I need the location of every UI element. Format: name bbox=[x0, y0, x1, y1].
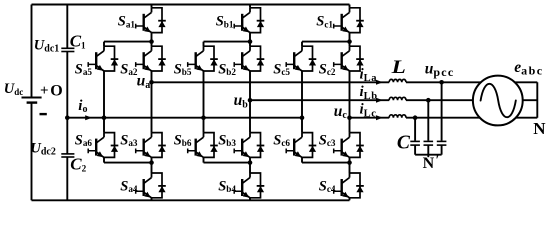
svg-text:Sa3: Sa3 bbox=[120, 132, 138, 148]
wire: filter-cap tap phase b bbox=[427, 100, 429, 141]
IGBT S_c2 bbox=[334, 46, 364, 71]
svg-text:iLb: iLb bbox=[360, 84, 378, 102]
IGBT S_b6 bbox=[188, 133, 218, 158]
filter capacitor C (phase a) bbox=[437, 141, 447, 145]
junction: node Sa1/Sa2 bbox=[149, 39, 154, 44]
IGBT S_a4 bbox=[136, 173, 166, 198]
svg-text:O: O bbox=[50, 82, 62, 99]
svg-text:C1: C1 bbox=[70, 31, 86, 50]
wire: node link Sc1-Sc2 to clamp bbox=[302, 41, 350, 43]
svg-text:+: + bbox=[40, 83, 49, 99]
IGBT S_c4 bbox=[334, 173, 364, 198]
wire: node link Sc3-Sc4 to clamp bbox=[302, 162, 350, 164]
arrow: i_Lc current direction bbox=[376, 115, 383, 120]
svg-text:Sb1: Sb1 bbox=[216, 14, 234, 30]
capacitor C1 bbox=[61, 48, 74, 51]
svg-text:Sc1: Sc1 bbox=[316, 14, 333, 30]
svg-text:Sc3: Sc3 bbox=[319, 132, 336, 148]
svg-text:C: C bbox=[397, 133, 411, 154]
svg-text:upcc: upcc bbox=[425, 61, 455, 80]
AC grid source e_abc (circle) bbox=[473, 76, 523, 126]
junction: output node u_c bbox=[347, 115, 352, 120]
IGBT S_b5 bbox=[188, 46, 218, 71]
svg-text:Sb4: Sb4 bbox=[218, 178, 236, 194]
filter capacitor C (phase c) bbox=[410, 141, 420, 145]
junction: tap on phase-c line bbox=[413, 115, 418, 120]
wire: filter-cap tap phase a bbox=[441, 82, 443, 140]
svg-text:Sc6: Sc6 bbox=[273, 132, 290, 148]
junction: output node u_a bbox=[149, 80, 154, 85]
junction: clamp leg on neutral bus (phase a) bbox=[102, 115, 107, 120]
junction: O node on DC-link rail bbox=[65, 115, 70, 120]
svg-text:Udc1: Udc1 bbox=[34, 38, 59, 55]
IGBT S_c5 bbox=[286, 46, 316, 71]
svg-text:iLc: iLc bbox=[360, 102, 377, 120]
svg-text:Udc: Udc bbox=[4, 81, 23, 97]
wire: node link Sa3-Sa4 to clamp bbox=[104, 162, 152, 164]
svg-text:eabc: eabc bbox=[514, 59, 543, 78]
svg-text:Sb3: Sb3 bbox=[218, 132, 236, 148]
svg-text:io: io bbox=[78, 98, 87, 115]
svg-text:Udc2: Udc2 bbox=[30, 141, 55, 158]
junction: node Sc3/Sc4 bbox=[347, 160, 352, 165]
wire: phase-a output line to grid bbox=[152, 81, 481, 83]
arrow: i_Lb current direction bbox=[376, 98, 383, 103]
wire: phase-b main column bbox=[249, 5, 251, 201]
svg-text:N: N bbox=[533, 119, 546, 138]
DC source U_dc battery bbox=[22, 5, 42, 201]
wire: neutral midpoint bus O bbox=[67, 117, 302, 119]
svg-text:uc: uc bbox=[334, 103, 348, 121]
wire: filter-cap tap phase c bbox=[414, 118, 416, 141]
arrow: i_o current direction bbox=[85, 115, 92, 120]
svg-text:Sa6: Sa6 bbox=[75, 132, 93, 148]
IGBT S_c1 bbox=[334, 8, 364, 33]
wire: node link Sb3-Sb4 to clamp bbox=[204, 162, 251, 164]
junction: node Sc1/Sc2 bbox=[347, 39, 352, 44]
svg-text:ub: ub bbox=[234, 92, 249, 110]
junction: clamp leg on neutral bus (phase b) bbox=[201, 115, 206, 120]
wire: bottom DC rail bbox=[32, 199, 350, 201]
IGBT S_a5 bbox=[88, 46, 118, 71]
IGBT S_b3 bbox=[234, 133, 264, 158]
svg-text:ua: ua bbox=[137, 73, 151, 91]
junction: node Sb3/Sb4 bbox=[248, 160, 253, 165]
capacitor C2 bbox=[61, 154, 74, 157]
wire: filter-cap bottom lead phase c bbox=[414, 145, 416, 155]
junction: output node u_b bbox=[248, 98, 253, 103]
wire: filter-cap bottom lead phase b bbox=[427, 145, 429, 155]
inductor L (phase b) bbox=[389, 97, 406, 100]
wire: filter-cap middle stub bbox=[427, 155, 429, 158]
IGBT S_b1 bbox=[234, 8, 264, 33]
IGBT S_b2 bbox=[234, 46, 264, 71]
IGBT S_a6 bbox=[88, 133, 118, 158]
junction: node Sb1/Sb2 bbox=[248, 39, 253, 44]
IGBT S_a3 bbox=[136, 133, 166, 158]
svg-text:Sa4: Sa4 bbox=[120, 178, 138, 194]
wire: phase-c clamp column bbox=[301, 42, 303, 163]
IGBT S_a2 bbox=[136, 46, 166, 71]
wire: node link Sa1-Sa2 to clamp bbox=[104, 41, 152, 43]
label - (battery negative) bbox=[40, 113, 47, 115]
filter capacitor C (phase b) bbox=[424, 141, 434, 145]
inductor L (phase a) bbox=[389, 79, 406, 82]
IGBT S_a1 bbox=[136, 8, 166, 33]
wire: filter-cap common bar N' bbox=[415, 154, 442, 156]
junction: tap on phase-a line bbox=[439, 80, 444, 85]
IGBT S_c3 bbox=[334, 133, 364, 158]
svg-text:C2: C2 bbox=[70, 154, 86, 173]
wire: DC-link rail bbox=[66, 5, 68, 201]
junction: node Sa3/Sa4 bbox=[149, 160, 154, 165]
sine wave inside AC source bbox=[481, 84, 516, 117]
svg-text:iLa: iLa bbox=[360, 66, 378, 84]
wire: phase-b output line to grid bbox=[250, 99, 473, 101]
junction: clamp leg on neutral bus (phase c) bbox=[300, 115, 305, 120]
svg-text:L: L bbox=[390, 57, 405, 78]
wire: grid neutral connections to N bbox=[515, 82, 538, 117]
svg-text:N′: N′ bbox=[423, 152, 440, 172]
arrow: i_La current direction bbox=[376, 80, 383, 85]
svg-text:Sa1: Sa1 bbox=[118, 14, 136, 30]
wire: phase-c main column bbox=[349, 5, 351, 201]
wire: phase-a clamp column bbox=[103, 42, 105, 163]
wire: top DC rail bbox=[32, 4, 350, 6]
wire: filter-cap bottom lead phase a bbox=[441, 145, 443, 155]
IGBT S_b4 bbox=[234, 173, 264, 198]
wire: phase-a main column bbox=[151, 5, 153, 201]
wire: node link Sb1-Sb2 to clamp bbox=[204, 41, 251, 43]
wire: phase-c output line to grid bbox=[350, 117, 480, 119]
junction: tap on phase-b line bbox=[426, 98, 431, 103]
svg-text:Sb6: Sb6 bbox=[174, 132, 192, 148]
wire: phase-b clamp column bbox=[203, 42, 205, 163]
svg-text:Sc4: Sc4 bbox=[319, 178, 336, 194]
inductor L (phase c) bbox=[389, 115, 406, 118]
IGBT S_c6 bbox=[286, 133, 316, 158]
